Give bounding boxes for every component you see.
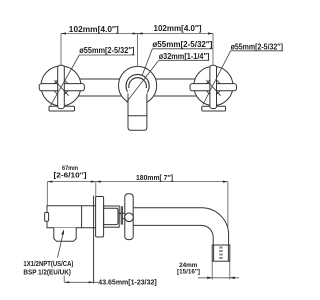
wire: dim line: [198, 277, 239, 279]
svg-text:102mm[4.0″]: 102mm[4.0″]: [154, 23, 202, 33]
wire: chain dim line: [47, 181, 228, 183]
node chain dim arrowheads: [47, 181, 228, 183]
node left-handle-circle: [41, 66, 81, 106]
node right-handle-hbar: [190, 84, 237, 91]
node aerator: [212, 245, 230, 261]
node dim arrowheads: [61, 32, 213, 34]
wire: dim line: [64, 281, 98, 283]
wire: ext left: [46, 182, 48, 206]
svg-text:[15/16″]: [15/16″]: [177, 269, 200, 276]
wire: dim line: [61, 33, 213, 35]
wire: extension left: [60, 34, 62, 66]
svg-text:ø32mm[1-1/4″]: ø32mm[1-1/4″]: [159, 51, 210, 61]
node side tab: [45, 213, 49, 222]
wire: extension mid: [137, 34, 139, 67]
node valve cartridge block: [104, 206, 120, 227]
node arrows 24mm: [207, 277, 212, 280]
svg-text:[2-6/10″]: [2-6/10″]: [54, 173, 87, 180]
node right-hub chamfers and cross mark: [206, 80, 220, 96]
node right-base: base plate under right handle: [202, 106, 226, 111]
node screw dot: [119, 213, 121, 215]
svg-text:1X1/2NPT(US/CA): 1X1/2NPT(US/CA): [23, 261, 73, 268]
svg-text:180mm[ 7″]: 180mm[ 7″]: [136, 175, 173, 182]
node inlet protrusion: [54, 228, 76, 242]
svg-text:ø55mm[2-5/32″]: ø55mm[2-5/32″]: [152, 39, 212, 49]
node spout tube: [133, 208, 228, 245]
svg-text:43.65mm[1-23/32]: 43.65mm[1-23/32]: [98, 277, 157, 286]
node spout escutcheon (side): [125, 194, 133, 240]
wire: ext right: [227, 182, 229, 230]
wire: ext lines: [211, 261, 213, 279]
node center-dome-outer: [126, 74, 149, 97]
svg-text:67mm: 67mm: [62, 165, 78, 172]
node left-base: base plate under left handle: [49, 106, 75, 111]
svg-text:102mm[4.0″]: 102mm[4.0″]: [69, 24, 119, 34]
svg-text:BSP 1/2(EU/UK): BSP 1/2(EU/UK): [23, 270, 71, 277]
wire: extension right: [212, 34, 214, 66]
wire: wall line: [93, 196, 95, 284]
node wall flange: [96, 197, 104, 238]
svg-text:ø55mm[2-5/32″]: ø55mm[2-5/32″]: [231, 41, 284, 51]
wire: ext mid: [95, 182, 97, 197]
node lever-handle (white mask + outline): [128, 88, 148, 131]
wire: stub ext: [63, 276, 65, 283]
node left-handle-vbar: [58, 65, 65, 108]
node left-hub chamfers and cross mark: [54, 80, 69, 96]
wire: stem lines: [121, 206, 125, 224]
node left-handle-hbar: [39, 84, 84, 91]
node right-handle-circle: [194, 66, 233, 105]
node ball joint circle: [125, 213, 134, 222]
node arrowheads 43.65: [64, 281, 93, 283]
node right-handle-vbar: [210, 65, 217, 108]
node valve-body main block: [47, 206, 96, 228]
node center-escutcheon-outer: [119, 66, 157, 104]
svg-text:ø55mm[2-5/32″]: ø55mm[2-5/32″]: [79, 45, 134, 55]
node center-dome-inner: [129, 78, 147, 96]
node inlet leader arrow: [58, 231, 64, 258]
wire: connecting pipe body between handles: [61, 78, 213, 80]
